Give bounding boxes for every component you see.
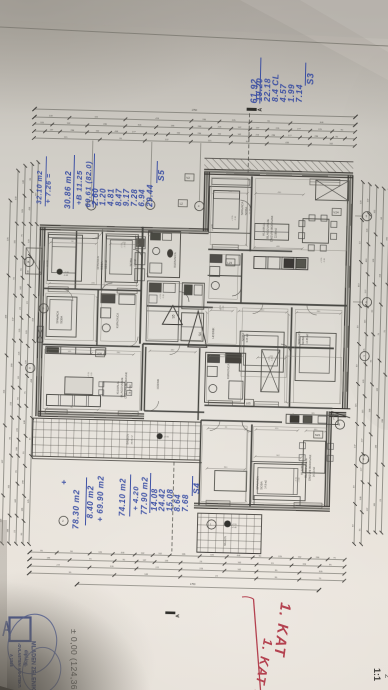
svg-text:14.08: 14.08 — [150, 488, 160, 511]
svg-text:2: 2 — [383, 674, 388, 679]
svg-text:SOBA: SOBA — [301, 336, 305, 344]
svg-text:L23: L23 — [227, 261, 232, 265]
svg-text:4.6 m2: 4.6 m2 — [134, 259, 137, 267]
svg-text:- 2.30: - 2.30 — [124, 243, 126, 248]
svg-text:SOBA: SOBA — [59, 316, 63, 324]
svg-text:9.45 m2: 9.45 m2 — [246, 333, 249, 342]
svg-text:61.92: 61.92 — [249, 79, 260, 104]
svg-text:BALKON: BALKON — [224, 536, 227, 546]
svg-text:V24: V24 — [333, 211, 339, 215]
svg-text:A: A — [258, 107, 264, 111]
svg-text:8.40 m2: 8.40 m2 — [86, 485, 96, 518]
svg-text:162: 162 — [8, 484, 10, 488]
svg-text:- 2.30: - 2.30 — [324, 258, 326, 263]
svg-text:25.14 m2: 25.14 m2 — [129, 384, 132, 395]
svg-text:- 2.30: - 2.30 — [235, 216, 237, 221]
svg-text:- 2.30: - 2.30 — [223, 306, 225, 311]
svg-text:N21: N21 — [315, 433, 321, 437]
svg-text:DNEVNI BORAVAK: DNEVNI BORAVAK — [269, 216, 274, 242]
svg-text:143: 143 — [15, 196, 17, 200]
svg-text:30.86 m2: 30.86 m2 — [63, 171, 73, 209]
svg-text:225: 225 — [10, 401, 12, 405]
svg-text:- 2.30: - 2.30 — [163, 294, 165, 299]
svg-text:22.88 m2: 22.88 m2 — [275, 227, 278, 238]
svg-text:14.05 m2: 14.05 m2 — [306, 333, 309, 344]
svg-text:S3: S3 — [305, 73, 315, 85]
svg-text:77.90 m2: 77.90 m2 — [140, 477, 150, 515]
svg-text:+B 11.25: +B 11.25 — [74, 170, 84, 205]
svg-text:BALKON: BALKON — [125, 434, 129, 445]
svg-text:SOBA: SOBA — [129, 258, 133, 266]
svg-text:1750: 1750 — [192, 109, 198, 112]
svg-text:+ 69.90 m2: + 69.90 m2 — [96, 475, 106, 521]
svg-text:DNEVNI BORAVAK: DNEVNI BORAVAK — [124, 372, 129, 398]
svg-text:+ 2.55: + 2.55 — [220, 305, 222, 310]
svg-text:74.10 m2: 74.10 m2 — [118, 478, 128, 516]
svg-text:- 2.30: - 2.30 — [271, 357, 273, 362]
svg-text:C: C — [29, 366, 31, 370]
svg-text:+ 7.26 =: + 7.26 = — [45, 173, 53, 203]
svg-text:+ 2.55: + 2.55 — [296, 477, 298, 482]
svg-text:+ 2.55: + 2.55 — [160, 294, 162, 299]
svg-text:HODNIK: HODNIK — [211, 327, 215, 338]
svg-text:280: 280 — [11, 363, 13, 367]
svg-text:13.5 m2: 13.5 m2 — [105, 259, 108, 268]
svg-text:KUPAONICA: KUPAONICA — [115, 313, 119, 328]
svg-text:1:1: 1:1 — [372, 668, 382, 681]
svg-text:V2: V2 — [186, 176, 190, 180]
svg-text:33.92 m2: 33.92 m2 — [131, 435, 133, 445]
svg-text:L2: L2 — [179, 202, 183, 206]
svg-text:+ 2.55: + 2.55 — [121, 243, 123, 248]
svg-text:+ 2.55: + 2.55 — [232, 216, 234, 221]
svg-text:1750: 1750 — [190, 583, 196, 586]
svg-text:34.42 m2: 34.42 m2 — [313, 466, 316, 477]
svg-text:p=100: p=100 — [212, 223, 214, 230]
svg-text:L05: L05 — [246, 401, 251, 405]
svg-text:HODNIK: HODNIK — [156, 379, 160, 389]
svg-text:115: 115 — [14, 239, 16, 243]
svg-text:KUPAONICA: KUPAONICA — [173, 252, 177, 267]
svg-text:SOBA: SOBA — [259, 481, 263, 489]
svg-text:14.8 m2: 14.8 m2 — [264, 479, 267, 488]
svg-text:11.03 m2: 11.03 m2 — [249, 204, 252, 215]
svg-text:32.10 m2: 32.10 m2 — [36, 170, 44, 204]
svg-text:+: + — [58, 479, 68, 485]
svg-text:p=100: p=100 — [47, 259, 49, 266]
svg-text:V05: V05 — [97, 352, 103, 356]
svg-text:S5: S5 — [172, 314, 176, 318]
svg-text:+ 2.55: + 2.55 — [321, 258, 323, 263]
svg-text:+ 4.20: + 4.20 — [131, 486, 141, 511]
svg-text:KUPAONICA: KUPAONICA — [226, 363, 230, 378]
svg-text:143: 143 — [7, 528, 9, 532]
svg-text:+ 2.55: + 2.55 — [268, 357, 270, 362]
svg-text:78.30 m2: 78.30 m2 — [70, 489, 81, 529]
svg-text:- 2.30: - 2.30 — [91, 373, 93, 378]
svg-text:69.61 (82.0): 69.61 (82.0) — [83, 161, 93, 208]
svg-text:SOBA: SOBA — [100, 261, 104, 269]
svg-text:137: 137 — [12, 317, 14, 321]
svg-text:+ 2.55: + 2.55 — [88, 372, 90, 377]
svg-text:DNEVNI BORAVAK: DNEVNI BORAVAK — [308, 455, 313, 481]
svg-text:- 2.30: - 2.30 — [299, 478, 301, 483]
